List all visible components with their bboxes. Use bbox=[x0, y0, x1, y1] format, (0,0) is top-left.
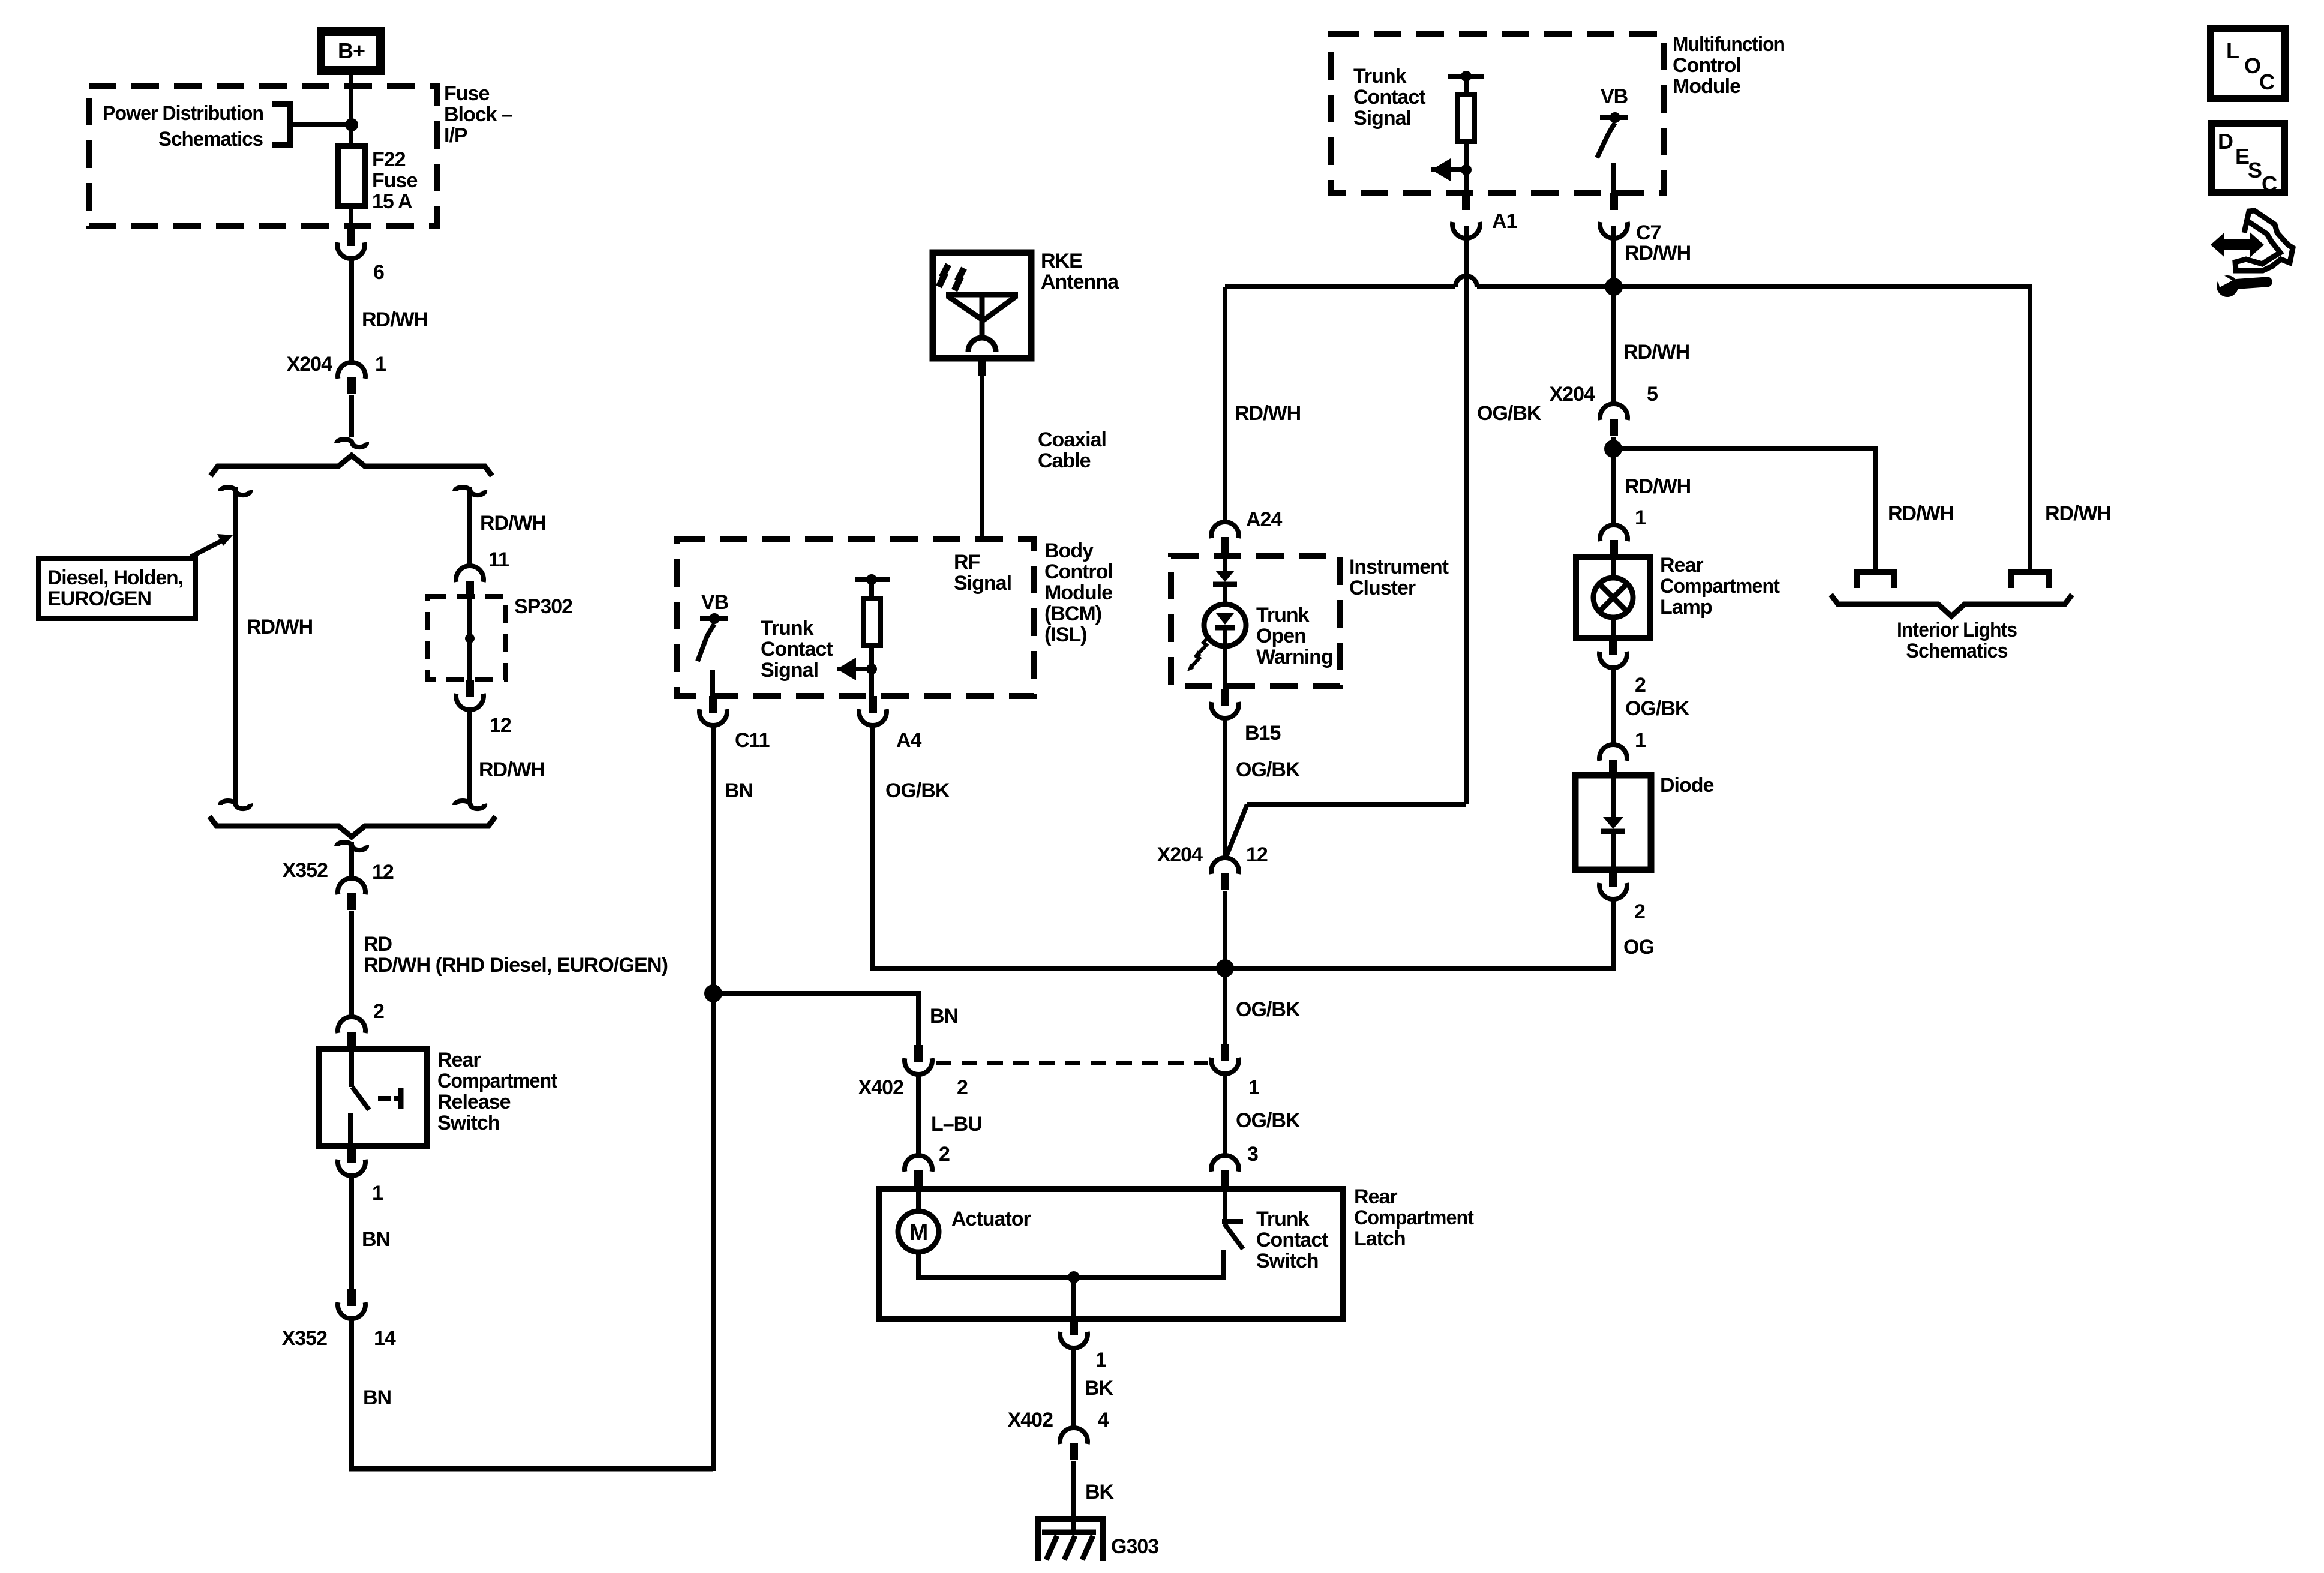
svg-text:Block –: Block – bbox=[444, 103, 512, 126]
connector A4 of BCM bbox=[859, 696, 887, 725]
svg-text:C: C bbox=[2262, 172, 2277, 196]
svg-text:X204: X204 bbox=[1157, 843, 1203, 866]
release switch contact dashes bbox=[378, 1096, 391, 1101]
wire to X352 pin 12 bbox=[349, 842, 354, 879]
wire RD/WH right branch to connector 11 bbox=[467, 487, 472, 567]
svg-text:RD: RD bbox=[364, 933, 392, 956]
coaxial cable wire bbox=[980, 359, 984, 542]
callout box Diesel Holden EURO/GEN bbox=[38, 559, 196, 619]
BCM trunk contact signal arrow bbox=[837, 658, 872, 680]
wire BN rise to trunk contact signal junction bbox=[711, 991, 716, 1471]
connector 3 of latch trunk contact switch bbox=[1211, 1155, 1239, 1187]
svg-text:Antenna: Antenna bbox=[1041, 271, 1119, 293]
MF VB switch lower pole bbox=[1611, 163, 1616, 193]
dashed box splice SP302 bbox=[428, 596, 505, 680]
wire end curl right branch bottom bbox=[455, 801, 485, 809]
svg-text:Trunk: Trunk bbox=[1353, 65, 1407, 88]
svg-text:12: 12 bbox=[490, 714, 511, 737]
BCM resistor T top bbox=[855, 577, 890, 582]
svg-text:14: 14 bbox=[374, 1327, 396, 1350]
ground G303 symbol bbox=[1038, 1519, 1103, 1561]
svg-text:4: 4 bbox=[1098, 1409, 1109, 1431]
svg-text:VB: VB bbox=[1601, 85, 1628, 108]
svg-text:Interior Lights: Interior Lights bbox=[1897, 619, 2017, 641]
connector 2 of latch actuator bbox=[905, 1155, 932, 1187]
svg-text:Warning: Warning bbox=[1256, 646, 1333, 668]
svg-text:Contact: Contact bbox=[761, 638, 833, 661]
wire BN from BCM C11 to junction bbox=[711, 724, 716, 993]
svg-text:OG/BK: OG/BK bbox=[885, 779, 950, 802]
svg-text:2: 2 bbox=[939, 1143, 950, 1166]
options merge bottom brace bbox=[209, 816, 496, 837]
connector 12 of SP302 bbox=[456, 680, 484, 710]
svg-text:Trunk: Trunk bbox=[1256, 604, 1310, 626]
svg-text:OG/BK: OG/BK bbox=[1236, 1109, 1301, 1132]
options split top brace bbox=[211, 455, 492, 476]
svg-text:Control: Control bbox=[1044, 560, 1113, 583]
BCM VB switch lower pole bbox=[710, 670, 715, 696]
wire start curl below bottom brace bbox=[337, 842, 367, 850]
trunk contact switch tick bbox=[1222, 1219, 1243, 1224]
svg-text:Cable: Cable bbox=[1038, 449, 1091, 472]
MF VB switch dot bbox=[1610, 112, 1620, 123]
svg-text:A24: A24 bbox=[1246, 508, 1282, 531]
connector X402 pin 1 bbox=[1211, 1044, 1239, 1074]
connector 2 of release switch bbox=[338, 1017, 365, 1049]
connector 1 of release switch bbox=[338, 1146, 365, 1176]
wire OG/BK lamp to diode connector 1 bbox=[1611, 667, 1616, 746]
wire OG horizontal A4 to diode bbox=[870, 966, 1616, 971]
BCM resistor lower lead bbox=[869, 646, 874, 696]
svg-text:Compartment: Compartment bbox=[437, 1070, 557, 1092]
dashed box instrument cluster bbox=[1171, 556, 1340, 686]
svg-text:1: 1 bbox=[375, 353, 386, 376]
svg-text:BN: BN bbox=[362, 1228, 390, 1251]
junction dot latch common bbox=[1068, 1271, 1080, 1283]
junction dot OG/BK at X204 pin 12 column bbox=[1216, 959, 1234, 977]
svg-text:Contact: Contact bbox=[1256, 1229, 1328, 1251]
trunk open warning LED circle bbox=[1204, 604, 1246, 646]
bracket power distribution schematics bbox=[272, 104, 290, 145]
svg-text:Latch: Latch bbox=[1354, 1227, 1406, 1250]
LED emission arrows bbox=[1199, 635, 1210, 653]
svg-text:X402: X402 bbox=[1008, 1409, 1053, 1431]
BCM trunk contact signal dot bbox=[866, 664, 877, 674]
svg-text:Cluster: Cluster bbox=[1349, 577, 1416, 599]
svg-text:VB: VB bbox=[701, 591, 729, 614]
wire BN junction to X402 pin 2 drop bbox=[713, 991, 921, 996]
dashed box fuse block I/P bbox=[89, 86, 437, 226]
wire RD/WH left branch (Diesel Holden EURO/GEN) bbox=[233, 487, 238, 803]
connector X402 pin 2 bbox=[905, 1045, 932, 1074]
wire B+ to fuse F22 bbox=[349, 75, 353, 146]
wire trunk contact switch lower pole bbox=[1221, 1250, 1226, 1280]
svg-text:X352: X352 bbox=[282, 1327, 327, 1350]
cluster LED lower lead bbox=[1223, 646, 1227, 689]
wire BK to ground G303 bbox=[1071, 1461, 1076, 1533]
svg-text:X204: X204 bbox=[1550, 383, 1595, 406]
rear compartment latch box bbox=[879, 1189, 1343, 1319]
wire power distribution tap bbox=[289, 122, 352, 127]
wire OG/BK B15 to X204 pin 12 bbox=[1223, 717, 1227, 859]
terminal to interior lights schematics right bbox=[2011, 572, 2049, 588]
svg-text:Diesel, Holden,: Diesel, Holden, bbox=[47, 566, 183, 589]
svg-text:(BCM): (BCM) bbox=[1044, 602, 1101, 625]
svg-text:L: L bbox=[2226, 38, 2239, 63]
svg-text:Multifunction: Multifunction bbox=[1673, 33, 1785, 56]
MF C7 stub bbox=[1610, 193, 1618, 210]
svg-text:B+: B+ bbox=[338, 38, 365, 63]
svg-text:M: M bbox=[909, 1220, 928, 1245]
connector 1 of rear compartment lamp bbox=[1600, 525, 1628, 557]
svg-text:RD/WH: RD/WH bbox=[1888, 502, 1954, 525]
wire RD/WH bus drop to interior lights right bbox=[2028, 284, 2032, 572]
wire start curl right branch bbox=[455, 487, 485, 495]
connector X352 pin 12 bbox=[338, 878, 365, 910]
splice dot SP302 bbox=[465, 634, 475, 643]
MF A1 cup bbox=[1452, 222, 1480, 238]
svg-text:1: 1 bbox=[1635, 506, 1646, 529]
connector 2 of diode bbox=[1599, 870, 1627, 899]
svg-text:Schematics: Schematics bbox=[158, 128, 263, 151]
wire release switch lower pole bbox=[348, 1113, 353, 1146]
svg-text:Release: Release bbox=[437, 1091, 511, 1113]
svg-text:OG/BK: OG/BK bbox=[1236, 758, 1301, 781]
svg-text:6: 6 bbox=[373, 261, 384, 284]
wire latch connector 3 to trunk contact switch bbox=[1223, 1189, 1227, 1220]
MF VB switch blade bbox=[1597, 123, 1615, 158]
svg-text:(ISL): (ISL) bbox=[1044, 623, 1087, 646]
wire through splice SP302 bbox=[467, 599, 472, 680]
wire latch common horizontal bbox=[918, 1275, 1225, 1280]
svg-text:C: C bbox=[2259, 70, 2275, 94]
lamp bulb symbol bbox=[1593, 578, 1633, 617]
junction dot fuse block tap bbox=[345, 118, 358, 131]
svg-text:Signal: Signal bbox=[761, 659, 818, 682]
svg-text:OG/BK: OG/BK bbox=[1625, 697, 1690, 720]
DESC icon box bbox=[2211, 124, 2284, 193]
cluster series diode bbox=[1223, 556, 1227, 572]
wire RD/WH branch to interior lights left bbox=[1613, 446, 1876, 451]
svg-text:2: 2 bbox=[373, 1000, 384, 1023]
connector A24 instrument cluster bbox=[1211, 522, 1239, 554]
dashed box body control module BCM bbox=[677, 539, 1034, 696]
svg-text:Signal: Signal bbox=[954, 572, 1011, 595]
diode symbol bbox=[1611, 775, 1616, 818]
svg-text:1: 1 bbox=[372, 1182, 383, 1205]
svg-text:RD/WH: RD/WH bbox=[480, 512, 546, 535]
connector X204 pin 5 bbox=[1600, 404, 1628, 436]
wire BN release switch to X352 pin 14 bbox=[349, 1175, 354, 1291]
wire BK latch to X402 pin 4 bbox=[1071, 1347, 1076, 1429]
svg-text:Rear: Rear bbox=[437, 1049, 481, 1071]
svg-text:Fuse: Fuse bbox=[444, 82, 489, 105]
wire OG/BK junction to X402 pin 1 bbox=[1223, 968, 1227, 1046]
svg-text:BK: BK bbox=[1085, 1481, 1115, 1503]
svg-text:12: 12 bbox=[1246, 843, 1268, 866]
wire OG/BK X204 pin 12 to junction bbox=[1223, 891, 1227, 971]
wire RD/WH C7 to bus bbox=[1611, 226, 1616, 289]
svg-text:RD/WH: RD/WH bbox=[1235, 402, 1301, 425]
svg-text:OG: OG bbox=[1623, 936, 1654, 959]
wire OG/BK horizontal toward X204 pin 12 bbox=[1247, 802, 1466, 807]
svg-text:SP302: SP302 bbox=[514, 595, 572, 618]
wire hop at A1 crossing bbox=[1455, 276, 1477, 287]
svg-text:C7: C7 bbox=[1636, 221, 1661, 244]
svg-text:Switch: Switch bbox=[437, 1112, 500, 1134]
MF C7 cup bbox=[1600, 222, 1628, 238]
wire RD/WH drop to interior lights left bbox=[1873, 446, 1878, 572]
connector 2 of rear compartment lamp bbox=[1599, 638, 1627, 668]
junction dot latch common redraw bbox=[1068, 1271, 1080, 1283]
svg-text:Control: Control bbox=[1673, 54, 1741, 77]
connector B15 instrument cluster bbox=[1211, 689, 1239, 718]
svg-text:Instrument: Instrument bbox=[1349, 556, 1449, 578]
wire latch switch lower pole redraw bbox=[1221, 1250, 1226, 1280]
wire latch connector 2 to actuator motor bbox=[916, 1189, 921, 1214]
wire latch connector2 stub redraw bbox=[916, 1189, 921, 1214]
wire release switch upper pole bbox=[349, 1049, 354, 1087]
svg-text:Trunk: Trunk bbox=[1256, 1208, 1310, 1230]
MF resistor T top bbox=[1448, 74, 1484, 79]
svg-text:OG/BK: OG/BK bbox=[1477, 402, 1542, 425]
svg-text:Contact: Contact bbox=[1353, 86, 1425, 109]
svg-text:BN: BN bbox=[363, 1386, 391, 1409]
connector C11 of BCM bbox=[699, 696, 727, 725]
connector 11 of SP302 bbox=[456, 566, 484, 598]
svg-text:5: 5 bbox=[1647, 383, 1658, 406]
release switch blade bbox=[352, 1087, 369, 1110]
wire latch common to connector 1 bbox=[1071, 1277, 1076, 1320]
connector X204 pin 12 bbox=[1211, 858, 1239, 890]
wire latch switch top redraw bbox=[1223, 1189, 1227, 1220]
interior lights brace bbox=[1831, 595, 2072, 616]
wire RD/WH bus left segment bbox=[1225, 284, 1455, 289]
svg-text:O: O bbox=[2244, 53, 2260, 78]
wire RD/WH X204 pin 5 to lamp branch junction bbox=[1611, 437, 1616, 451]
rear compartment lamp box bbox=[1576, 557, 1650, 638]
svg-text:2: 2 bbox=[957, 1076, 968, 1099]
svg-text:Compartment: Compartment bbox=[1354, 1206, 1474, 1229]
wire end curl left branch bottom bbox=[220, 801, 250, 809]
svg-text:RD/WH (RHD Diesel, EURO/GEN): RD/WH (RHD Diesel, EURO/GEN) bbox=[364, 954, 668, 977]
wire RD/WH bus to instrument cluster A24 bbox=[1223, 287, 1227, 523]
LOC icon box bbox=[2211, 29, 2285, 98]
wire fuse to connector 6 bbox=[349, 206, 353, 231]
wire RD/WH fuse block to X204 pin 1 bbox=[349, 257, 354, 364]
svg-text:Switch: Switch bbox=[1256, 1250, 1319, 1272]
wire RD/WH bus to X204 pin 5 bbox=[1611, 287, 1616, 405]
wire end curl above top brace bbox=[337, 439, 367, 447]
resistor in multifunction module bbox=[1458, 95, 1475, 142]
svg-text:G303: G303 bbox=[1111, 1535, 1158, 1558]
connector X402 pin 4 bbox=[1060, 1428, 1088, 1460]
wire L-BU to latch connector 2 bbox=[916, 1073, 921, 1157]
svg-text:Open: Open bbox=[1256, 625, 1306, 647]
junction dot RD/WH bus at C7 bbox=[1605, 278, 1623, 296]
wire latch motor to common redraw bbox=[916, 1251, 921, 1280]
connector 6 fuse block output, pin 6 bbox=[337, 229, 365, 259]
wire BN drop to X402 pin 2 bbox=[916, 991, 921, 1047]
svg-text:3: 3 bbox=[1247, 1143, 1258, 1166]
connector X352 pin 14 bbox=[338, 1289, 365, 1319]
rear compartment release switch box bbox=[319, 1049, 427, 1146]
wire latch common drop redraw bbox=[1071, 1277, 1076, 1319]
svg-text:B15: B15 bbox=[1245, 722, 1280, 745]
wire actuator motor to latch common bbox=[916, 1251, 921, 1280]
svg-text:12: 12 bbox=[372, 861, 394, 884]
svg-text:2: 2 bbox=[1635, 674, 1646, 697]
wire BN bottom horizontal run bbox=[349, 1466, 713, 1472]
wire OG/BK from A1 down to instrument cluster bend bbox=[1464, 226, 1469, 804]
svg-text:Signal: Signal bbox=[1353, 107, 1411, 130]
svg-text:RD/WH: RD/WH bbox=[2045, 502, 2111, 525]
svg-text:11: 11 bbox=[488, 548, 509, 571]
RKE antenna signal marks bbox=[939, 265, 948, 287]
wire OG diode down to horizontal run bbox=[1611, 898, 1616, 971]
wire OG/BK to latch connector 3 bbox=[1223, 1073, 1227, 1157]
BCM VB switch blade bbox=[698, 624, 714, 661]
svg-text:Trunk: Trunk bbox=[761, 617, 814, 640]
release switch lower pole redraw bbox=[348, 1113, 353, 1146]
svg-text:X204: X204 bbox=[287, 353, 332, 376]
svg-text:15 A: 15 A bbox=[372, 190, 412, 213]
RKE antenna symbol bbox=[946, 292, 1018, 298]
terminal to interior lights schematics left bbox=[1857, 572, 1894, 588]
svg-text:EURO/GEN: EURO/GEN bbox=[47, 587, 151, 610]
svg-text:RD/WH: RD/WH bbox=[362, 308, 428, 331]
MF A1 stub bbox=[1462, 193, 1470, 210]
wire RD/WH to options split bbox=[349, 395, 354, 437]
svg-text:Body: Body bbox=[1044, 539, 1094, 562]
svg-text:BN: BN bbox=[725, 779, 753, 802]
svg-text:C11: C11 bbox=[735, 729, 770, 752]
svg-text:X402: X402 bbox=[858, 1076, 903, 1099]
svg-text:I/P: I/P bbox=[444, 124, 467, 147]
release switch contact redraw bbox=[378, 1096, 391, 1101]
RKE antenna box bbox=[933, 253, 1031, 358]
svg-text:Rear: Rear bbox=[1660, 554, 1703, 577]
BCM VB switch bbox=[700, 616, 728, 621]
power symbol B+ bbox=[317, 27, 385, 75]
svg-text:X352: X352 bbox=[283, 859, 328, 882]
wire start curl left branch bbox=[220, 487, 250, 495]
svg-text:L–BU: L–BU bbox=[931, 1113, 982, 1136]
svg-text:RF: RF bbox=[954, 551, 980, 574]
trunk contact switch blade redraw bbox=[1224, 1224, 1243, 1249]
wire RD/WH below SP302 bbox=[467, 709, 472, 803]
svg-text:Module: Module bbox=[1044, 581, 1112, 604]
svg-text:A1: A1 bbox=[1492, 210, 1517, 233]
dashed connector line X402 bbox=[936, 1061, 1208, 1065]
MF trunk contact signal dot bbox=[1461, 164, 1472, 175]
svg-text:Diode: Diode bbox=[1660, 774, 1714, 797]
svg-text:BN: BN bbox=[930, 1005, 958, 1028]
svg-text:OG/BK: OG/BK bbox=[1236, 998, 1301, 1021]
wire OG/BK diagonal into X204 pin 12 bbox=[1226, 804, 1247, 857]
svg-text:Coaxial: Coaxial bbox=[1038, 428, 1106, 451]
svg-text:E: E bbox=[2235, 144, 2249, 169]
svg-text:F22: F22 bbox=[372, 148, 406, 171]
svg-text:RD/WH: RD/WH bbox=[479, 758, 545, 781]
MF resistor upper lead bbox=[1464, 76, 1469, 95]
resistor in BCM bbox=[864, 599, 881, 646]
connector view icon outline bbox=[2235, 211, 2293, 271]
BCM VB switch dot bbox=[709, 613, 720, 624]
release switch upper pole redraw bbox=[349, 1049, 354, 1087]
diode box bbox=[1575, 775, 1651, 870]
svg-text:Power Distribution: Power Distribution bbox=[103, 102, 263, 125]
wire BN down from X352 pin 14 bbox=[349, 1317, 354, 1469]
svg-text:2: 2 bbox=[1634, 900, 1645, 923]
svg-text:RD/WH: RD/WH bbox=[1625, 475, 1691, 498]
wire RD/WH junction to lamp connector 1 bbox=[1611, 449, 1616, 526]
svg-text:Module: Module bbox=[1673, 75, 1740, 98]
connector 1 of diode bbox=[1599, 745, 1627, 776]
svg-text:BK: BK bbox=[1085, 1377, 1114, 1400]
svg-text:Rear: Rear bbox=[1354, 1185, 1397, 1208]
junction dot BN trunk contact signal bbox=[704, 984, 722, 1002]
svg-text:Fuse: Fuse bbox=[372, 169, 417, 192]
svg-text:A4: A4 bbox=[896, 729, 922, 752]
svg-text:D: D bbox=[2218, 129, 2233, 154]
svg-text:1: 1 bbox=[1248, 1076, 1259, 1099]
trunk contact switch blade bbox=[1224, 1224, 1243, 1249]
callout arrow bbox=[191, 539, 224, 557]
connector 1 of latch bbox=[1060, 1319, 1088, 1348]
actuator motor M bbox=[898, 1211, 939, 1252]
fuse F22 symbol bbox=[338, 146, 365, 206]
svg-text:Lamp: Lamp bbox=[1660, 596, 1712, 619]
BCM resistor upper lead bbox=[869, 580, 874, 599]
trunk contact switch tick redraw bbox=[1222, 1219, 1243, 1224]
svg-text:S: S bbox=[2248, 158, 2262, 182]
wire OG/BK from BCM A4 down bbox=[870, 724, 875, 971]
svg-text:Actuator: Actuator bbox=[951, 1208, 1031, 1230]
connector X204 pin 1 bbox=[338, 362, 365, 394]
BCM resistor T dot bbox=[866, 574, 877, 585]
junction dot RD/WH lamp branch bbox=[1604, 440, 1622, 458]
connector view double arrow bbox=[2212, 235, 2262, 254]
svg-text:RD/WH: RD/WH bbox=[1625, 242, 1691, 265]
svg-text:RD/WH: RD/WH bbox=[1623, 341, 1689, 364]
wire RD / RD-WH to release switch connector 2 bbox=[349, 911, 354, 1018]
wire latch common horizontal redraw bbox=[918, 1275, 1225, 1280]
release switch blade redraw bbox=[352, 1087, 369, 1110]
MF resistor lower lead bbox=[1464, 142, 1469, 193]
MF resistor T dot bbox=[1461, 71, 1472, 82]
dashed box multifunction control module bbox=[1331, 34, 1664, 193]
wrench icon bbox=[2216, 270, 2274, 298]
coaxial cable stub bbox=[978, 359, 986, 376]
wire RD/WH bus right segment bbox=[1477, 284, 2030, 289]
svg-text:Compartment: Compartment bbox=[1660, 575, 1780, 598]
svg-text:RKE: RKE bbox=[1041, 250, 1082, 272]
svg-text:Schematics: Schematics bbox=[1906, 640, 2008, 662]
svg-text:1: 1 bbox=[1635, 729, 1646, 752]
svg-text:1: 1 bbox=[1095, 1349, 1106, 1371]
MF VB switch tick bbox=[1600, 115, 1628, 120]
svg-text:RD/WH: RD/WH bbox=[247, 616, 313, 638]
MF trunk contact signal arrow bbox=[1431, 158, 1466, 181]
